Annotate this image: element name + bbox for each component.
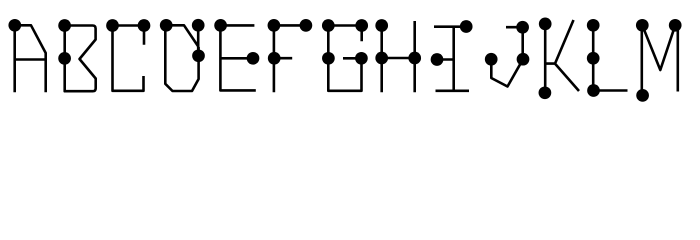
letter L — [587, 19, 628, 97]
letter G — [322, 19, 368, 91]
letter I — [431, 20, 473, 91]
letter D — [160, 19, 205, 91]
letter M — [636, 19, 682, 102]
letter C — [106, 19, 150, 91]
letter B — [58, 19, 95, 91]
letter F — [268, 19, 313, 92]
letter K — [539, 18, 579, 100]
letter J — [485, 21, 530, 87]
letter A — [8, 19, 45, 92]
letter H — [375, 19, 421, 92]
letter E — [214, 19, 259, 90]
